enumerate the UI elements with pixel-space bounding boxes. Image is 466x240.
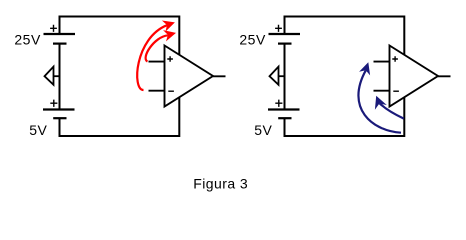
svg-text:25V: 25V [239,31,266,47]
svg-text:5V: 5V [254,122,272,138]
svg-text:5V: 5V [29,122,47,138]
svg-text:25V: 25V [14,31,41,47]
svg-text:Figura 3: Figura 3 [193,175,248,191]
